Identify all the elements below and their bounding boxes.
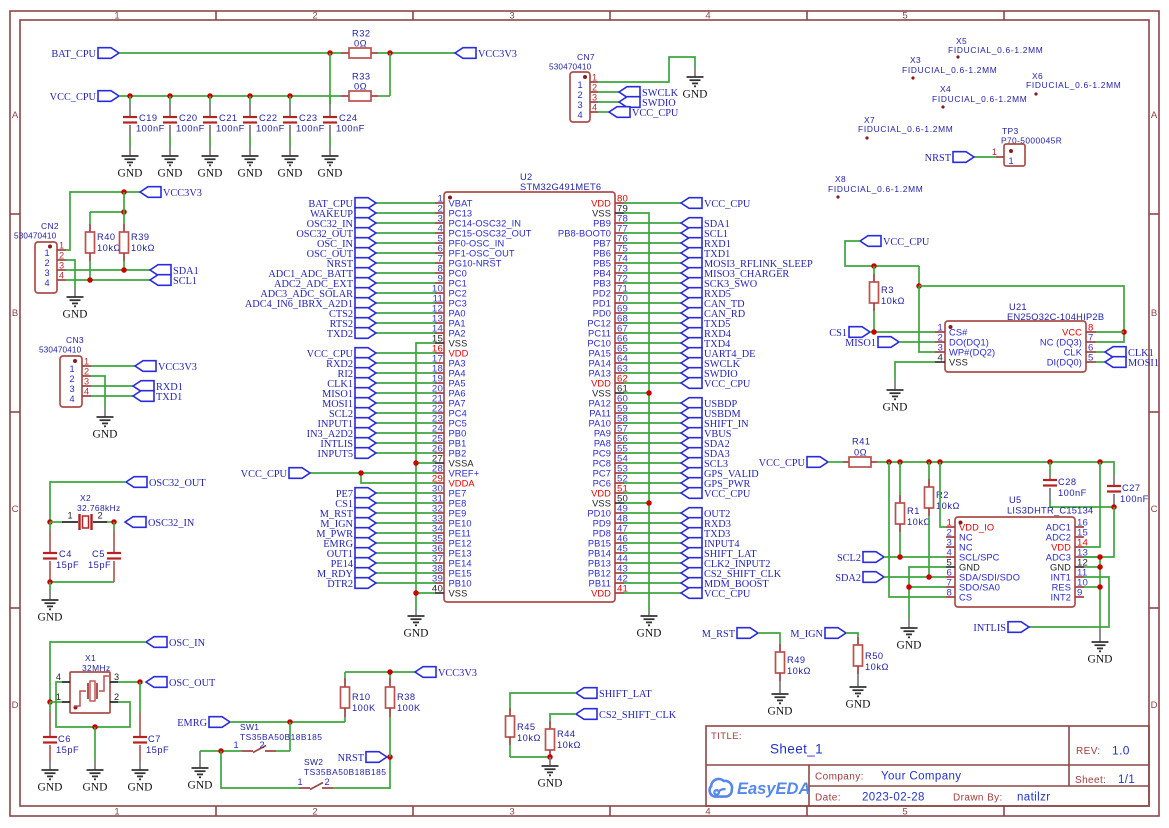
capacitor C19 100nF bbox=[123, 93, 165, 156]
wire VCC_CPU to U21 feed bbox=[845, 241, 919, 266]
svg-text:INTLIS: INTLIS bbox=[973, 623, 1006, 634]
svg-text:1: 1 bbox=[114, 11, 119, 22]
net flag VCC_CPU top-left bbox=[50, 91, 119, 103]
svg-text:PB1: PB1 bbox=[449, 438, 467, 448]
svg-text:GND: GND bbox=[38, 612, 63, 624]
svg-text:PA8: PA8 bbox=[594, 438, 611, 448]
U21 pin 7 NC (DQ3) bbox=[1040, 333, 1096, 348]
U2 pin 56 PA8 flag SDA2 bbox=[594, 434, 730, 450]
net flag RXD1 bbox=[133, 381, 183, 393]
svg-text:NRST: NRST bbox=[925, 153, 952, 164]
net flag VCC_CPU CN7 bbox=[609, 107, 679, 119]
svg-text:natilzr: natilzr bbox=[1017, 792, 1050, 804]
svg-text:GND: GND bbox=[846, 699, 871, 711]
wire CN7 pin3 bbox=[598, 101, 619, 103]
net flag NRST SW2 bbox=[338, 752, 387, 764]
svg-text:VDD: VDD bbox=[591, 588, 611, 598]
svg-text:R41: R41 bbox=[852, 437, 871, 447]
ground U5 left bbox=[897, 628, 922, 652]
switch SW1 TS35BA50B18B185 bbox=[233, 722, 322, 753]
wire NRST to TP3 bbox=[974, 156, 996, 158]
svg-text:PA13: PA13 bbox=[589, 368, 611, 378]
svg-text:VREF+: VREF+ bbox=[449, 468, 480, 478]
junction R40/R39 top bbox=[121, 209, 127, 215]
svg-text:1: 1 bbox=[233, 740, 238, 750]
svg-text:VSS: VSS bbox=[592, 498, 611, 508]
net flag CS1 bbox=[829, 327, 870, 339]
svg-text:3: 3 bbox=[44, 268, 49, 278]
svg-text:2: 2 bbox=[59, 251, 64, 261]
U2 right VSS rail bbox=[624, 213, 649, 616]
capacitor C27 100nF bbox=[1107, 475, 1149, 507]
resistor R44 10k bbox=[546, 721, 581, 757]
junction rail VDDIO bbox=[937, 459, 943, 465]
net flag SDA1 bbox=[150, 265, 199, 277]
wire vertical R33 right bbox=[389, 53, 391, 96]
U2 pin 46 PB15 flag INPUT4 bbox=[588, 534, 740, 550]
svg-text:3: 3 bbox=[114, 672, 119, 682]
U5 pin 5 GND bbox=[946, 558, 980, 573]
U21 pin 1 CS# bbox=[935, 323, 968, 338]
svg-text:VCC_CPU: VCC_CPU bbox=[759, 458, 806, 469]
svg-text:1: 1 bbox=[44, 248, 49, 258]
U2 pin 71 PD2 flag RXD5 bbox=[593, 284, 731, 300]
U2 pin 60 PA12 flag USBDP bbox=[589, 394, 738, 410]
svg-text:VSSA: VSSA bbox=[449, 458, 475, 468]
U2 pin 30 PE7 flag PE7 bbox=[336, 484, 467, 500]
U2 pin 17 PA3 flag RXD2 bbox=[326, 354, 466, 370]
svg-text:0Ω: 0Ω bbox=[854, 448, 867, 458]
svg-text:VCC_CPU: VCC_CPU bbox=[704, 489, 751, 500]
svg-text:VCC_CPU: VCC_CPU bbox=[241, 469, 288, 480]
svg-text:PE13: PE13 bbox=[449, 548, 472, 558]
svg-text:2: 2 bbox=[312, 11, 317, 22]
svg-text:LIS3DHTR_C15134: LIS3DHTR_C15134 bbox=[1007, 506, 1093, 516]
net flag SCL2 U5 bbox=[837, 552, 884, 564]
ground below C21 bbox=[198, 156, 223, 180]
net flag M_IGN bbox=[790, 628, 846, 640]
svg-text:R49: R49 bbox=[787, 655, 806, 665]
svg-text:2: 2 bbox=[592, 83, 597, 93]
svg-text:C23: C23 bbox=[299, 113, 318, 123]
junction VREF branch bbox=[358, 470, 364, 476]
svg-text:R32: R32 bbox=[352, 29, 371, 39]
U21 pin 6 CLK bbox=[1064, 343, 1096, 358]
svg-text:GND: GND bbox=[118, 168, 143, 180]
U2 pin 58 PA10 flag SHIFT_IN bbox=[589, 414, 750, 430]
junction SW1 SW2 bbox=[218, 748, 224, 754]
wire X1 pin1 to stub bbox=[50, 701, 62, 703]
svg-text:OSC32_IN: OSC32_IN bbox=[148, 518, 195, 529]
wire CN7 pin2 bbox=[598, 91, 619, 93]
net flag OSC32_OUT bbox=[126, 477, 206, 489]
svg-text:VCC3V3: VCC3V3 bbox=[163, 188, 202, 199]
svg-text:PF0-OSC_IN: PF0-OSC_IN bbox=[449, 238, 505, 248]
svg-text:1.0: 1.0 bbox=[1112, 744, 1130, 758]
svg-text:4: 4 bbox=[705, 11, 710, 22]
ground X1 mid bbox=[83, 770, 108, 794]
svg-text:GND: GND bbox=[158, 168, 183, 180]
svg-text:5: 5 bbox=[1088, 353, 1094, 364]
U2 pin 32 PE9 flag M_RST bbox=[320, 504, 467, 520]
wire M_RST to R49 bbox=[758, 633, 780, 644]
wire R45 R44 common bbox=[510, 756, 550, 758]
connector CN2 530470410 bbox=[14, 221, 66, 293]
U2 pin 64 PA14 flag SWCLK bbox=[589, 354, 741, 370]
wire CS2_SHIFT_CLK to R44 bbox=[550, 714, 576, 721]
wire X1 pin3 node bbox=[118, 681, 140, 683]
junction BAT rail right bbox=[387, 50, 393, 56]
svg-text:4: 4 bbox=[59, 271, 64, 281]
U2 pin 55 PC9 flag SDA3 bbox=[593, 444, 730, 460]
svg-text:GND: GND bbox=[1088, 654, 1113, 666]
U2 pin 5 PF0-OSC_IN flag OSC_IN bbox=[317, 234, 504, 250]
svg-text:C: C bbox=[12, 504, 19, 515]
U21 pin 3 WP#(DQ2) bbox=[935, 343, 995, 358]
junction U5 pin12 bbox=[1097, 564, 1103, 570]
svg-text:PB15: PB15 bbox=[588, 538, 611, 548]
U5 pin 16 ADC1 bbox=[1046, 518, 1088, 533]
svg-text:VDD: VDD bbox=[591, 488, 611, 498]
svg-text:VSS: VSS bbox=[592, 208, 611, 218]
net flag EMRG bbox=[177, 717, 230, 729]
U2 pin 23 PC5 flag INPUT1 bbox=[318, 414, 467, 430]
svg-text:3: 3 bbox=[84, 377, 89, 387]
svg-text:PA15: PA15 bbox=[589, 348, 611, 358]
svg-text:VCC_CPU: VCC_CPU bbox=[632, 108, 679, 119]
resistor R45 10k bbox=[506, 708, 541, 757]
resistor R2 10k bbox=[925, 462, 960, 577]
wire M_IGN to R50 bbox=[846, 633, 858, 637]
capacitor C4 15pF bbox=[43, 522, 79, 582]
svg-text:2: 2 bbox=[259, 740, 264, 750]
ground U21 bbox=[883, 390, 908, 414]
U2 pin 21 PA7 flag MOSI1 bbox=[322, 394, 466, 410]
junction BAT rail left bbox=[327, 50, 333, 56]
junction rail R1 bbox=[897, 459, 903, 465]
svg-text:D: D bbox=[12, 700, 19, 711]
U2 pin 25 PB1 flag INTLIS bbox=[320, 434, 466, 450]
U2 pin 35 PE12 flag EMRG bbox=[323, 534, 471, 550]
U2 pin 76 PB7 flag RXD1 bbox=[593, 234, 731, 250]
switch SW2 TS35BA50B18B185 bbox=[297, 757, 386, 790]
U2 pin 69 PD0 flag CAN_RD bbox=[593, 304, 746, 320]
U2 pin 22 PC4 flag SCL2 bbox=[329, 404, 467, 420]
U2 pin 11 PC3 flag ADC4_IN6_IBRX_A2D1 bbox=[245, 294, 467, 310]
svg-text:10kΩ: 10kΩ bbox=[517, 733, 541, 743]
svg-text:1: 1 bbox=[1008, 156, 1013, 166]
frame row letters bbox=[12, 110, 1158, 711]
svg-text:5: 5 bbox=[902, 807, 907, 818]
U2 pin 65 PA15 flag UART4_DE bbox=[589, 344, 756, 360]
svg-text:CLK: CLK bbox=[1064, 347, 1083, 357]
resistor R40 10k bbox=[86, 212, 121, 280]
svg-text:2023-02-28: 2023-02-28 bbox=[862, 792, 925, 804]
svg-text:4: 4 bbox=[69, 394, 74, 404]
junction rail R2 bbox=[926, 459, 932, 465]
wire SHIFT_LAT to R45 bbox=[510, 693, 576, 708]
svg-text:SCL1: SCL1 bbox=[173, 276, 197, 287]
svg-text:2: 2 bbox=[114, 692, 119, 702]
svg-text:PE8: PE8 bbox=[449, 498, 467, 508]
capacitor C23 100nF bbox=[283, 93, 325, 156]
svg-text:PC0: PC0 bbox=[449, 268, 467, 278]
wire WP to U21 pin3 bbox=[919, 286, 935, 352]
svg-text:PA3: PA3 bbox=[449, 358, 466, 368]
svg-text:100nF: 100nF bbox=[256, 124, 285, 134]
junction U2 pin40 VSS bbox=[413, 590, 419, 596]
svg-text:SDO/SA0: SDO/SA0 bbox=[959, 582, 1000, 592]
svg-text:VCC3V3: VCC3V3 bbox=[438, 668, 477, 679]
svg-text:X2: X2 bbox=[80, 493, 91, 503]
wire CN7 pin4 bbox=[598, 111, 609, 113]
net flag SDA2 U5 bbox=[835, 572, 884, 584]
net flag SHIFT_LAT bbox=[576, 688, 652, 700]
svg-text:INT2: INT2 bbox=[1050, 592, 1071, 602]
capacitor C21 100nF bbox=[203, 93, 245, 156]
svg-text:PD2: PD2 bbox=[593, 288, 611, 298]
svg-text:2: 2 bbox=[312, 807, 317, 818]
svg-text:STM32G491MET6: STM32G491MET6 bbox=[520, 182, 601, 192]
svg-text:4: 4 bbox=[705, 807, 710, 818]
junction ADC3 gnd rail bbox=[1097, 554, 1103, 560]
svg-text:NC: NC bbox=[959, 542, 973, 552]
svg-text:1/1: 1/1 bbox=[1118, 774, 1135, 786]
svg-text:VCC_CPU: VCC_CPU bbox=[704, 589, 751, 600]
svg-text:PC2: PC2 bbox=[449, 288, 467, 298]
U2 pin 3 PC14-OSC32_IN flag OSC32_IN bbox=[307, 214, 521, 230]
svg-text:OSC32_OUT: OSC32_OUT bbox=[149, 478, 206, 489]
svg-text:VCC_CPU: VCC_CPU bbox=[50, 92, 97, 103]
svg-text:Your Company: Your Company bbox=[881, 771, 961, 783]
svg-text:TXD1: TXD1 bbox=[156, 392, 182, 403]
U5 pin 9 INT2 bbox=[1050, 588, 1084, 603]
svg-text:PC14-OSC32_IN: PC14-OSC32_IN bbox=[449, 218, 522, 228]
svg-text:2: 2 bbox=[84, 367, 89, 377]
svg-text:PC13: PC13 bbox=[449, 208, 473, 218]
svg-text:PA6: PA6 bbox=[449, 388, 466, 398]
junction R44 gnd bbox=[547, 754, 553, 760]
svg-text:CS2_SHIFT_CLK: CS2_SHIFT_CLK bbox=[599, 710, 677, 721]
svg-text:GND: GND bbox=[683, 89, 708, 101]
svg-text:R39: R39 bbox=[131, 232, 150, 242]
wire U5 pin5 gnd bbox=[909, 567, 946, 628]
svg-text:15pF: 15pF bbox=[146, 745, 169, 755]
capacitor C6 15pF bbox=[43, 702, 79, 770]
net flag SCL1 bbox=[150, 275, 197, 287]
U2 pin 14 PA2 flag TXD2 bbox=[327, 324, 466, 340]
U2 pin 74 PB5 flag MOSI3_RFLINK_SLEEP bbox=[593, 254, 813, 270]
svg-text:4: 4 bbox=[44, 278, 49, 288]
U2 pin 4 PC15-OSC32_OUT flag OSC32_OUT bbox=[296, 224, 531, 240]
svg-text:FIDUCIAL_0.6-1.2MM: FIDUCIAL_0.6-1.2MM bbox=[858, 124, 953, 134]
wire accel vcc rail bbox=[877, 462, 1114, 475]
svg-text:100K: 100K bbox=[397, 703, 421, 713]
svg-text:DI(DQ0): DI(DQ0) bbox=[1047, 357, 1082, 367]
net flag VCC3V3 top bbox=[455, 48, 517, 60]
capacitor C28 100nF bbox=[1043, 462, 1087, 507]
wire CN2 pin4 SCL1 bbox=[66, 279, 150, 281]
svg-text:1: 1 bbox=[297, 777, 302, 787]
svg-text:3: 3 bbox=[509, 11, 514, 22]
svg-text:U2: U2 bbox=[520, 172, 532, 182]
svg-text:A: A bbox=[1151, 110, 1158, 121]
svg-text:10kΩ: 10kΩ bbox=[557, 740, 581, 750]
wire BAT_CPU rail bbox=[119, 52, 341, 54]
ground C6 bbox=[38, 770, 63, 794]
junction U21 pin8 bbox=[1121, 329, 1127, 335]
svg-text:1: 1 bbox=[114, 807, 119, 818]
svg-text:GND: GND bbox=[198, 168, 223, 180]
svg-text:PC1: PC1 bbox=[449, 278, 467, 288]
U5 pin 6 SDA/SDI/SDO bbox=[946, 568, 1020, 583]
ground CN2 bbox=[63, 297, 88, 321]
junction EMRG SW1 bbox=[287, 719, 293, 725]
svg-text:4: 4 bbox=[937, 353, 943, 364]
U2 pin 52 PC6 flag GPS_PWR bbox=[593, 474, 751, 490]
wire to gnd R44 bbox=[549, 757, 551, 766]
svg-text:GND: GND bbox=[188, 780, 213, 792]
U2 pin 42 PB11 flag MDM_BOOST bbox=[589, 574, 770, 590]
U2 pin 7 PG10-NRST flag NRST bbox=[327, 254, 502, 270]
net flag MOSI1 U21 bbox=[1105, 357, 1159, 369]
resistor R32 0R bbox=[341, 29, 378, 59]
svg-text:15pF: 15pF bbox=[88, 560, 111, 570]
resistor R41 0R bbox=[828, 437, 877, 468]
svg-text:U5: U5 bbox=[1009, 495, 1021, 505]
svg-text:REV:: REV: bbox=[1076, 746, 1101, 757]
svg-text:C27: C27 bbox=[1122, 483, 1141, 493]
svg-text:PE9: PE9 bbox=[449, 508, 467, 518]
svg-text:PB12: PB12 bbox=[588, 568, 611, 578]
U2 pin 77 PB8-BOOT0 flag SCL1 bbox=[558, 224, 728, 240]
svg-text:Drawn By:: Drawn By: bbox=[953, 793, 1003, 804]
U2 pin 44 PB13 flag CLK2_INPUT2 bbox=[588, 554, 771, 570]
svg-text:Sheet:: Sheet: bbox=[1075, 775, 1106, 786]
connector CN3 530470410 bbox=[39, 335, 91, 407]
U2 pin 73 PB4 flag MISO3_CHARGER bbox=[593, 264, 789, 280]
svg-text:FIDUCIAL_0.6-1.2MM: FIDUCIAL_0.6-1.2MM bbox=[948, 45, 1043, 55]
svg-text:ADC1: ADC1 bbox=[1046, 522, 1071, 532]
wire SW2 left leg bbox=[221, 751, 299, 788]
svg-text:PD0: PD0 bbox=[593, 308, 611, 318]
svg-text:PB11: PB11 bbox=[589, 578, 611, 588]
svg-text:NC: NC bbox=[959, 532, 973, 542]
svg-text:U21: U21 bbox=[1009, 302, 1027, 312]
U2 left VSS rail bbox=[416, 343, 435, 615]
U2 pin 20 PA6 flag MISO1 bbox=[322, 384, 466, 400]
crystal X2 32.768kHz bbox=[50, 493, 121, 530]
svg-text:PG10-NRST: PG10-NRST bbox=[449, 258, 502, 268]
svg-text:GND: GND bbox=[959, 562, 980, 572]
svg-text:VBAT: VBAT bbox=[449, 198, 473, 208]
svg-text:PE14: PE14 bbox=[449, 558, 472, 568]
U5 pin 8 CS bbox=[946, 588, 972, 603]
wire CN7 pin1 to gnd bbox=[598, 57, 695, 82]
U2 pin 16 VDD flag VCC_CPU bbox=[307, 344, 469, 360]
svg-text:PB10: PB10 bbox=[449, 578, 472, 588]
wire C28 C27 common bbox=[1050, 506, 1114, 508]
svg-text:PD8: PD8 bbox=[593, 528, 611, 538]
svg-text:4: 4 bbox=[56, 672, 61, 682]
svg-text:CS#: CS# bbox=[949, 327, 968, 337]
ground CN3 bbox=[93, 417, 118, 441]
U5 pin 1 VDD_IO bbox=[946, 518, 994, 533]
net flag CLK1 bbox=[1105, 347, 1154, 359]
svg-text:GND: GND bbox=[1050, 562, 1071, 572]
svg-text:R10: R10 bbox=[352, 692, 371, 702]
svg-text:100nF: 100nF bbox=[296, 124, 325, 134]
wire CN3 pin3 bbox=[91, 385, 133, 387]
svg-text:3: 3 bbox=[59, 261, 64, 271]
svg-text:ADC3: ADC3 bbox=[1046, 552, 1071, 562]
svg-text:3: 3 bbox=[592, 93, 597, 103]
wire vertical BAT to VCC line bbox=[329, 53, 331, 104]
junction X2 pin1 node bbox=[47, 519, 53, 525]
svg-text:3: 3 bbox=[69, 384, 74, 394]
U2 pin 10 PC2 flag ADC3_ADC_SOLAR bbox=[260, 284, 467, 300]
junction R1 bottom bbox=[897, 554, 903, 560]
svg-text:0Ω: 0Ω bbox=[354, 39, 367, 49]
svg-text:C4: C4 bbox=[59, 549, 72, 559]
svg-text:X8: X8 bbox=[835, 174, 846, 184]
svg-text:DO(DQ1): DO(DQ1) bbox=[949, 337, 989, 347]
junction R40 bottom bbox=[87, 277, 93, 283]
svg-text:CN3: CN3 bbox=[66, 335, 84, 345]
svg-text:GND: GND bbox=[883, 402, 908, 414]
svg-text:2: 2 bbox=[69, 374, 74, 384]
svg-text:PA2: PA2 bbox=[449, 328, 466, 338]
svg-text:MOSI1: MOSI1 bbox=[1128, 358, 1159, 369]
wire ADC3 link bbox=[1084, 507, 1114, 557]
svg-text:C28: C28 bbox=[1058, 477, 1077, 487]
wire OSC_IN to X1 pin1 bbox=[50, 642, 146, 702]
svg-text:PC5: PC5 bbox=[449, 418, 467, 428]
resistor R38 100K bbox=[386, 672, 422, 757]
svg-text:VDD: VDD bbox=[1051, 542, 1071, 552]
svg-text:1: 1 bbox=[59, 241, 64, 251]
svg-text:B: B bbox=[12, 308, 18, 319]
svg-text:PA12: PA12 bbox=[589, 398, 611, 408]
svg-text:VCC_CPU: VCC_CPU bbox=[704, 379, 751, 390]
svg-text:PE7: PE7 bbox=[449, 488, 467, 498]
svg-text:C20: C20 bbox=[179, 113, 198, 123]
svg-text:PE10: PE10 bbox=[449, 518, 472, 528]
ground U2 right bbox=[637, 616, 662, 640]
svg-text:FIDUCIAL_0.6-1.2MM: FIDUCIAL_0.6-1.2MM bbox=[828, 184, 923, 194]
svg-text:9: 9 bbox=[1077, 588, 1083, 599]
ground SW1 bbox=[188, 768, 213, 792]
wire CN2 pin2 to gnd bbox=[66, 260, 75, 297]
U2 pin 48 PD9 flag RXD3 bbox=[593, 514, 731, 530]
wire EMRG to R10 bbox=[230, 721, 345, 723]
wire SW1 left to gnd bbox=[200, 751, 242, 768]
wire CN3 pin2 gnd bbox=[91, 376, 105, 417]
wire U21 vcc riser bbox=[918, 266, 920, 286]
junction R39 bottom bbox=[121, 267, 127, 273]
U2 pin 9 PC1 flag ADC2_ADC_EXT bbox=[274, 274, 467, 290]
svg-text:SW2: SW2 bbox=[304, 757, 323, 767]
svg-text:PE12: PE12 bbox=[449, 538, 472, 548]
svg-text:10kΩ: 10kΩ bbox=[787, 666, 811, 676]
junction rail CS bbox=[886, 459, 892, 465]
svg-text:2: 2 bbox=[324, 777, 329, 787]
svg-text:SCL/SPC: SCL/SPC bbox=[959, 552, 1000, 562]
svg-text:PC8: PC8 bbox=[593, 458, 611, 468]
svg-text:PB2: PB2 bbox=[449, 448, 467, 458]
U2 pin 72 PB3 flag SCK3_SWO bbox=[593, 274, 758, 290]
U2 pin 67 PC11 flag RXD4 bbox=[588, 324, 731, 340]
